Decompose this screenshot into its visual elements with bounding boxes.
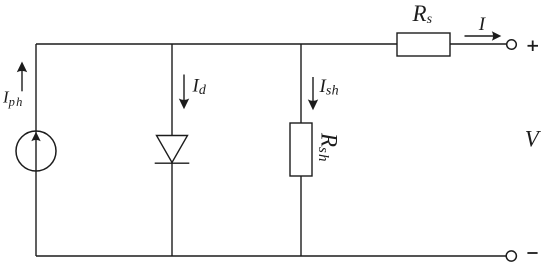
svg-text:I: I — [478, 14, 487, 35]
wire top bus left segment — [36, 43, 397, 45]
svg-text:Id: Id — [192, 76, 207, 99]
current source arrowhead — [31, 132, 40, 141]
resistor Rsh (body) — [290, 123, 312, 176]
current source Iph (circle) — [16, 131, 56, 171]
wire bottom bus — [36, 255, 506, 257]
wire shunt branch — [300, 44, 302, 256]
node + terminal (open circle) — [507, 40, 517, 50]
arrow Iph — [17, 62, 27, 92]
resistor Rs (body) — [397, 33, 450, 56]
svg-text:Ish: Ish — [319, 76, 339, 99]
plus sign — [528, 41, 539, 52]
wire diode branch — [171, 44, 173, 256]
svg-text:Rs: Rs — [412, 1, 433, 27]
arrow I (output current) — [465, 31, 502, 41]
arrow Id — [179, 75, 189, 110]
minus sign — [527, 252, 537, 254]
diode D — [155, 136, 190, 164]
svg-text:Iph: Iph — [2, 88, 24, 110]
arrow Ish — [308, 77, 318, 110]
svg-text:Rsh: Rsh — [315, 132, 342, 163]
wire top right segment (Rs to + terminal) — [450, 43, 507, 45]
wire left branch (current source branch) — [35, 44, 37, 256]
svg-text:V: V — [525, 127, 542, 152]
node - terminal (open circle) — [506, 251, 516, 261]
